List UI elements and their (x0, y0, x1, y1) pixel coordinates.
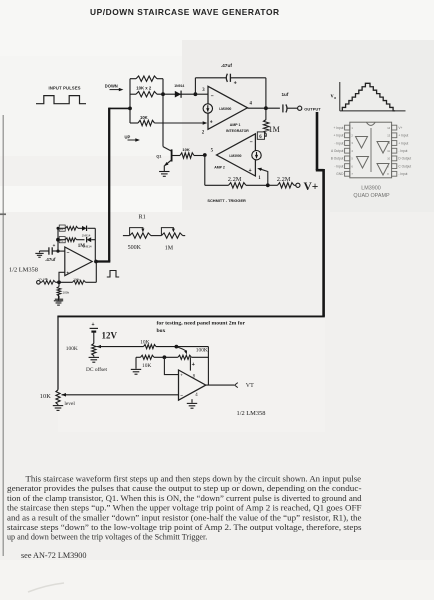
svg-text:+: + (210, 119, 213, 125)
svg-text:R1: R1 (139, 214, 146, 221)
svg-text:A Output: A Output (331, 149, 344, 153)
svg-text:- Input: - Input (334, 141, 343, 145)
svg-text:2.2M: 2.2M (277, 176, 291, 183)
svg-text:This staircase waveform first: This staircase waveform first steps up a… (26, 475, 362, 484)
svg-text:100K: 100K (66, 346, 78, 352)
svg-text:DOWN: DOWN (105, 83, 118, 88)
svg-text:LM3900: LM3900 (229, 154, 241, 158)
svg-text:DC offset: DC offset (86, 366, 108, 373)
svg-text:Q1: Q1 (156, 154, 161, 158)
svg-text:- Input: - Input (398, 172, 407, 176)
svg-text:1/2 LM358: 1/2 LM358 (237, 410, 266, 417)
svg-text:–: – (211, 93, 214, 99)
svg-text:10K: 10K (142, 363, 151, 369)
svg-text:LM3900: LM3900 (361, 185, 380, 191)
svg-text:see AN-72 LM3900: see AN-72 LM3900 (21, 551, 87, 560)
svg-text:12V: 12V (102, 331, 118, 341)
svg-text:v: v (331, 94, 334, 100)
svg-text:the staircase then steps “up.”: the staircase then steps “up.” When the … (7, 504, 362, 513)
svg-text:–: – (67, 250, 70, 256)
svg-text:- Input: - Input (398, 149, 407, 153)
svg-text:.47uf: .47uf (221, 63, 233, 69)
svg-text:up and down between the trip v: up and down between the trip voltages of… (7, 533, 207, 542)
svg-text:1N914: 1N914 (174, 84, 184, 88)
svg-text:–: – (180, 393, 183, 398)
svg-text:o: o (334, 96, 336, 100)
svg-text:1M: 1M (269, 125, 280, 134)
svg-text:1N914: 1N914 (83, 245, 92, 249)
svg-text:10K: 10K (140, 115, 148, 120)
svg-text:1/2 LM358: 1/2 LM358 (9, 266, 38, 273)
svg-text:UP: UP (125, 134, 131, 139)
svg-text:V+: V+ (304, 181, 319, 193)
svg-text:tion of the clamp transistor,: tion of the clamp transistor, Q1. When t… (7, 494, 362, 503)
svg-text:UP/DOWN STAIRCASE WAVE GENERAT: UP/DOWN STAIRCASE WAVE GENERATOR (90, 7, 280, 17)
svg-text:QUAD OPAMP: QUAD OPAMP (353, 193, 390, 199)
svg-text:500K: 500K (128, 245, 142, 251)
svg-text:OUTPUT: OUTPUT (304, 107, 321, 112)
svg-text:+: + (249, 168, 252, 174)
svg-text:+ Input: + Input (334, 126, 344, 130)
svg-text:INPUT PULSES: INPUT PULSES (49, 86, 81, 91)
svg-text:staircase steps “down” to the: staircase steps “down” to the low-voltag… (7, 523, 362, 532)
svg-text:+: + (92, 322, 95, 328)
svg-text:LM3900: LM3900 (219, 107, 231, 111)
svg-text:INTEGRATOR: INTEGRATOR (226, 129, 249, 133)
svg-text:10K x 2: 10K x 2 (136, 85, 152, 90)
svg-text:for testing, need panel mount: for testing, need panel mount 2m for (157, 321, 246, 327)
svg-text:100k: 100k (73, 277, 80, 281)
svg-text:generator provides the pulses: generator provides the pulses that cause… (7, 484, 362, 493)
svg-text:VT: VT (246, 383, 254, 389)
svg-text:100K: 100K (196, 347, 208, 353)
svg-text:+ Input: + Input (398, 134, 408, 138)
svg-text:level: level (64, 401, 75, 407)
svg-text:1uf: 1uf (282, 92, 289, 97)
svg-text:and as a result of the smaller: and as a result of the smaller “down” in… (7, 513, 362, 522)
svg-text:100k: 100k (63, 290, 70, 294)
svg-text:.47uf: .47uf (45, 257, 56, 262)
svg-text:GND: GND (336, 172, 344, 176)
svg-text:2.2M: 2.2M (228, 176, 242, 183)
svg-text:–: – (250, 139, 253, 145)
svg-text:10K: 10K (182, 147, 189, 152)
svg-text:C Output: C Output (398, 164, 411, 168)
svg-text:V+: V+ (398, 126, 402, 130)
svg-text:+ Input: + Input (398, 141, 408, 145)
svg-text:R1: R1 (60, 227, 64, 231)
svg-text:AMP 1: AMP 1 (230, 123, 241, 127)
svg-text:1M: 1M (165, 245, 174, 251)
svg-text:+: + (66, 270, 69, 275)
svg-text:SCHMITT - TRIGGER: SCHMITT - TRIGGER (207, 198, 246, 203)
svg-text:10K: 10K (40, 393, 51, 400)
svg-text:D Output: D Output (398, 157, 411, 161)
svg-text:+: + (53, 243, 56, 248)
svg-text:B Output: B Output (331, 157, 344, 161)
svg-text:- Input: - Input (334, 164, 343, 168)
svg-text:AMP 2: AMP 2 (214, 166, 225, 170)
svg-text:+ Input: + Input (334, 134, 344, 138)
svg-text:box: box (157, 328, 166, 334)
svg-text:+: + (234, 81, 237, 87)
